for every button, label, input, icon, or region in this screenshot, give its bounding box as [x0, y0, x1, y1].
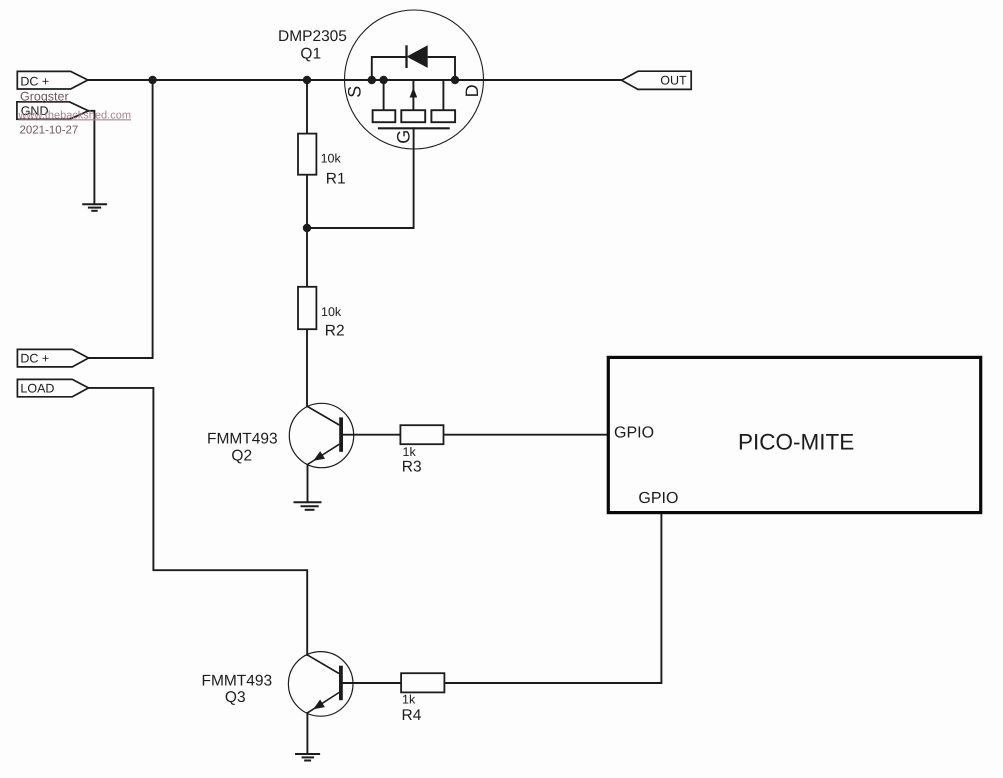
svg-text:DMP2305: DMP2305	[278, 28, 347, 45]
svg-text:1k: 1k	[403, 445, 417, 459]
svg-text:Q1: Q1	[300, 46, 321, 63]
svg-text:10k: 10k	[321, 152, 342, 166]
svg-text:DC +: DC +	[20, 352, 49, 366]
svg-text:GPIO: GPIO	[638, 490, 678, 507]
svg-text:OUT: OUT	[660, 74, 687, 88]
svg-text:R3: R3	[402, 459, 422, 476]
svg-text:R4: R4	[402, 707, 422, 724]
svg-text:LOAD: LOAD	[20, 382, 54, 396]
svg-text:R2: R2	[325, 323, 345, 340]
svg-text:www.thebackshed.com: www.thebackshed.com	[18, 109, 132, 121]
svg-text:2021-10-27: 2021-10-27	[20, 124, 79, 136]
svg-text:1k: 1k	[402, 693, 416, 707]
svg-text:D: D	[462, 84, 482, 97]
svg-text:R1: R1	[326, 171, 346, 188]
svg-text:GPIO: GPIO	[614, 425, 654, 442]
svg-text:S: S	[344, 86, 364, 98]
svg-text:FMMT493: FMMT493	[207, 431, 278, 448]
svg-text:FMMT493: FMMT493	[202, 673, 273, 690]
svg-text:Grogster: Grogster	[20, 90, 69, 104]
svg-text:Q3: Q3	[225, 689, 246, 706]
svg-text:Q2: Q2	[231, 448, 252, 465]
svg-text:G: G	[394, 130, 414, 144]
svg-text:10k: 10k	[321, 305, 342, 319]
svg-text:DC +: DC +	[20, 74, 49, 88]
svg-text:PICO-MITE: PICO-MITE	[738, 430, 854, 455]
